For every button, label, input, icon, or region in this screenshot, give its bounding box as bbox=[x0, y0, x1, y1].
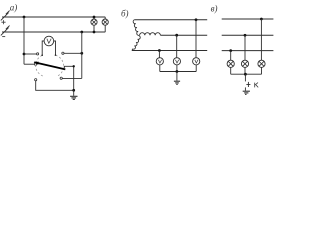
star bus (fig b) bbox=[160, 71, 196, 73]
wire: vertical from + bus down to switch contacts bbox=[23, 17, 25, 64]
wires: voltmeter bottoms to star bus bbox=[160, 65, 196, 72]
voltmeter V2 (fig b) bbox=[173, 58, 180, 65]
contact 1 (upper-left) bbox=[37, 53, 39, 55]
contact 5 (lower-right) bbox=[60, 77, 62, 79]
neutral bus (fig c) bbox=[231, 73, 262, 75]
contact 2 (left) bbox=[35, 63, 37, 65]
wire: drop to voltmeter V1 bbox=[158, 51, 160, 58]
wire: vertical minus drop bbox=[81, 32, 83, 78]
winding phase 3 (diagonal coil) bbox=[132, 36, 140, 51]
voltmeter leads bbox=[42, 41, 44, 55]
wire: contact 4 to minus drop bbox=[64, 52, 82, 54]
node on phase line 3 (fig c) bbox=[229, 49, 232, 52]
node junction at (24,54) bbox=[23, 53, 26, 56]
node: contact 4 wire joins minus drop bbox=[80, 52, 83, 55]
wire: drop to voltmeter V3 bbox=[195, 20, 197, 58]
ground (fig b) bbox=[176, 72, 178, 81]
ground (fig a) bbox=[73, 90, 75, 96]
node: neutral to contact K bbox=[244, 73, 247, 76]
wires: lamp bottoms to neutral bus bbox=[231, 67, 262, 74]
winding phase 1 (vertical coil) bbox=[133, 20, 139, 36]
lamp HL2 bbox=[102, 19, 108, 25]
voltmeter V3 (fig b) bbox=[193, 58, 200, 65]
label + bbox=[1, 20, 5, 24]
selector switch dashed arc left bbox=[36, 55, 44, 76]
svg-text:б): б) bbox=[121, 8, 129, 18]
switch blade bbox=[34, 62, 65, 69]
svg-text:а): а) bbox=[10, 2, 17, 12]
winding phase 2 (horizontal coil) bbox=[140, 33, 161, 36]
break mark on - bus bbox=[1, 28, 9, 36]
break mark on + bus bbox=[1, 13, 9, 21]
wire: drop to lamp 2 bbox=[244, 35, 246, 60]
wire: neutral bus down to contact K bbox=[244, 74, 246, 81]
wire: branch to contact 2 bbox=[24, 63, 34, 65]
node: star point to ground bbox=[176, 70, 179, 73]
phase line 3 (fig b) bbox=[132, 50, 207, 52]
voltmeter PV1 bbox=[44, 36, 54, 46]
lamp 2 (fig c) bbox=[241, 60, 248, 67]
contact K bbox=[247, 82, 249, 87]
node at earth line junction bbox=[72, 89, 75, 92]
contact 4 (upper-right) bbox=[62, 52, 64, 54]
blade pole tips bbox=[41, 54, 43, 56]
node on phase line 2 bbox=[175, 34, 178, 37]
lamp 3 (fig c) bbox=[258, 60, 265, 67]
wire: contact 5 to minus drop bbox=[62, 77, 82, 79]
node on phase line 1 bbox=[195, 18, 198, 21]
blade handle tip bbox=[34, 62, 39, 65]
node on + bus at x=24 bbox=[23, 16, 26, 19]
bus + (top DC line) bbox=[2, 16, 105, 18]
selector switch dashed arc right bbox=[56, 55, 64, 76]
wire: blade tip to earth column bbox=[64, 66, 73, 90]
wire: drop to voltmeter V2 bbox=[176, 35, 178, 58]
bus - (bottom DC line) bbox=[2, 31, 105, 33]
node on phase line 1 (fig c) bbox=[260, 18, 263, 21]
phase line 2 (fig b) bbox=[160, 34, 207, 36]
contact 3 (lower-left) bbox=[35, 79, 37, 81]
wire: drop to lamp 1 bbox=[230, 51, 232, 61]
voltmeter V1 (fig b) bbox=[156, 58, 163, 65]
svg-text:в): в) bbox=[211, 4, 218, 14]
wire: contact 3 to earth line bbox=[36, 81, 74, 91]
wire: contact K to ground bbox=[244, 87, 246, 90]
phase line 2 (fig c) bbox=[222, 34, 274, 36]
node on phase line 2 (fig c) bbox=[244, 34, 247, 37]
node on - bus at x=81.8 bbox=[80, 31, 83, 34]
lamp 1 (fig c) bbox=[227, 60, 234, 67]
wire: drop to lamp 3 bbox=[260, 19, 262, 60]
ground (fig c) bbox=[243, 90, 250, 92]
wire: branch to contact 1 bbox=[24, 53, 36, 55]
label minus bbox=[2, 36, 5, 38]
phase line 1 (fig b) bbox=[135, 19, 208, 21]
node on phase line 3 bbox=[158, 49, 161, 52]
phase line 1 (fig c) bbox=[222, 18, 274, 20]
lamp HL1 bbox=[91, 19, 97, 25]
node: blade tip wire corner bbox=[73, 65, 75, 67]
phase line 3 (fig c) bbox=[222, 50, 274, 52]
